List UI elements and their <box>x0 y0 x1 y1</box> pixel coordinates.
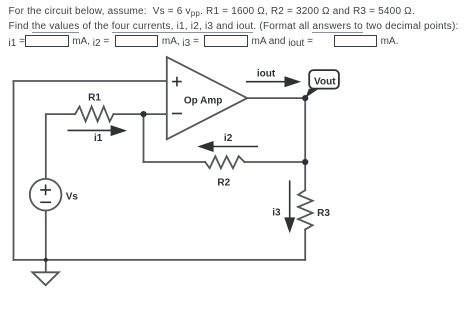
wire: R1 to op-amp - input <box>114 113 168 115</box>
source - symbol <box>40 201 51 203</box>
source + symbol <box>40 185 51 196</box>
svg-text:i3: i3 <box>272 208 281 219</box>
wire: output node down to feedback node <box>304 98 306 162</box>
input box i3 <box>204 35 248 47</box>
svg-text:i1: i1 <box>94 133 103 144</box>
wire: node down to R3 <box>304 162 306 190</box>
wire: feedback horizontal left segment <box>144 161 206 163</box>
arrowhead i1 <box>111 125 128 136</box>
svg-text:iout: iout <box>257 69 276 80</box>
wire: feedback horizontal right segment <box>244 161 305 163</box>
arrowhead i2 <box>197 141 213 152</box>
svg-text:Vout: Vout <box>314 77 336 88</box>
junction dot: output node <box>302 95 308 101</box>
input box iout <box>334 35 377 47</box>
svg-text:Op Amp: Op Amp <box>184 95 223 106</box>
resistor R1 <box>75 107 113 122</box>
wire: op-amp output <box>247 97 305 99</box>
wire: Vs to inverting-input node (left part before R1) <box>46 114 75 179</box>
wire: left rail (non-inverting input to ground rail) <box>13 81 15 260</box>
arrowhead i3 <box>284 217 295 233</box>
current arrow iout shaft <box>246 81 285 83</box>
problem text line 1 <box>9 6 415 18</box>
op-amp U1 <box>167 57 247 139</box>
current arrow i3 shaft <box>289 180 291 218</box>
wire: Vs bottom to ground rail <box>45 210 47 260</box>
junction dot: inverting input node <box>140 111 146 117</box>
op-amp + input symbol <box>172 77 182 87</box>
arrowhead iout <box>285 76 302 87</box>
svg-text:R3: R3 <box>317 208 330 219</box>
junction dot: ground node <box>44 258 48 262</box>
resistor R2 <box>205 156 244 168</box>
wire: R3 bottom to ground rail <box>304 230 306 260</box>
svg-text:R2: R2 <box>217 177 230 188</box>
wire: bottom ground rail <box>14 259 306 261</box>
Vout callout box <box>309 70 339 89</box>
input box i2 <box>115 35 158 47</box>
svg-text:i2: i2 <box>224 133 233 144</box>
junction dot: feedback/R3 node <box>302 159 308 165</box>
current arrow i2 shaft <box>213 146 258 148</box>
ground <box>45 260 47 272</box>
wire: feedback vertical drop from inverting node <box>143 114 145 162</box>
wire: top horizontal to op-amp + input <box>14 80 168 82</box>
op-amp - input symbol <box>172 113 182 115</box>
resistor R3 <box>298 190 313 229</box>
answer row: i1 label <box>9 36 25 48</box>
input box i1 <box>25 35 69 47</box>
svg-text:Vs: Vs <box>66 192 79 203</box>
problem text line 2 <box>9 21 459 33</box>
svg-text:R1: R1 <box>88 93 101 104</box>
voltage source Vs <box>30 179 62 211</box>
Vout callout tail <box>306 89 319 98</box>
current arrow i1 shaft <box>68 129 113 131</box>
